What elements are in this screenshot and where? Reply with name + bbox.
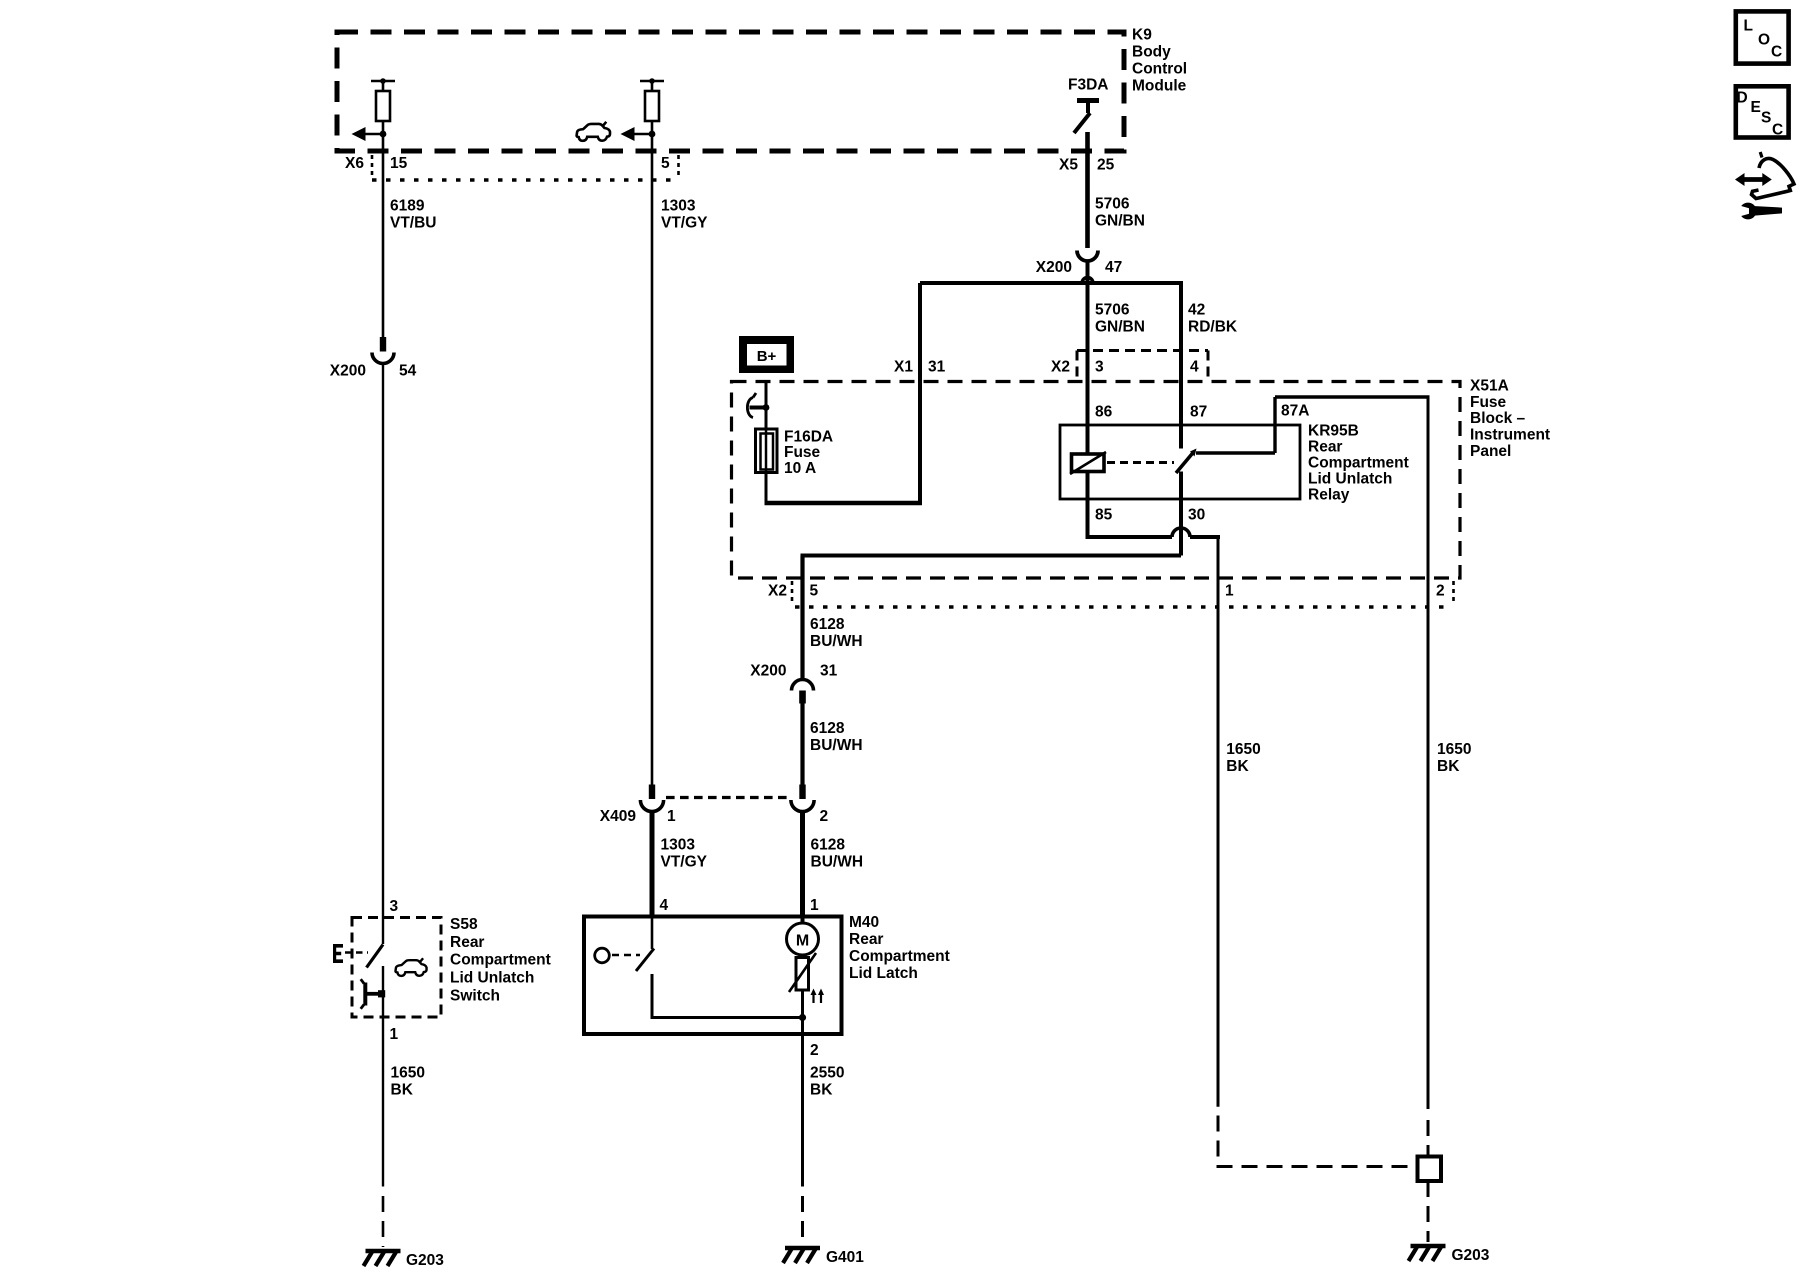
connector strip bottom (dotted) bbox=[795, 605, 1453, 609]
svg-text:Panel: Panel bbox=[1470, 443, 1511, 460]
svg-text:5706: 5706 bbox=[1095, 302, 1130, 319]
svg-text:VT/BU: VT/BU bbox=[390, 215, 437, 232]
switch S58 Rear Compartment Lid Unlatch Switch (dashed box) bbox=[352, 918, 441, 1018]
latch switch pivot bbox=[595, 948, 610, 963]
connector X200 pin 31 (in-line) bbox=[792, 680, 814, 691]
wire relay arm to 87A terminal bbox=[1196, 451, 1275, 454]
separator right (bottom row) bbox=[1452, 581, 1455, 603]
wire from fuse to riser bbox=[765, 473, 768, 504]
svg-text:G203: G203 bbox=[406, 1252, 444, 1269]
wire 87A up and over to fuse block pin 2 drop bbox=[1273, 397, 1276, 453]
ground G401 bbox=[785, 1246, 820, 1250]
wire - BCM internal down to X6 pin 15 bbox=[382, 134, 385, 152]
wire 1303 VT/GY to M40 pin 4 bbox=[650, 812, 655, 917]
svg-text:4: 4 bbox=[660, 897, 669, 914]
svg-text:X409: X409 bbox=[600, 808, 637, 825]
svg-text:Compartment: Compartment bbox=[450, 952, 551, 969]
node - junction at driver output bbox=[380, 131, 387, 138]
wire from B+ to fuse bbox=[765, 382, 768, 430]
svg-text:F3DA: F3DA bbox=[1068, 77, 1108, 94]
svg-text:31: 31 bbox=[928, 359, 946, 376]
svg-text:47: 47 bbox=[1105, 259, 1122, 276]
svg-text:31: 31 bbox=[820, 663, 838, 680]
svg-text:BU/WH: BU/WH bbox=[810, 633, 863, 650]
svg-text:1650: 1650 bbox=[1226, 741, 1260, 758]
svg-text:5706: 5706 bbox=[1095, 196, 1130, 213]
latch switch link (dashed) bbox=[612, 954, 640, 957]
svg-text:2: 2 bbox=[820, 808, 829, 825]
svg-text:F16DA: F16DA bbox=[784, 429, 833, 446]
link E to switch (dashed) bbox=[345, 951, 368, 954]
icon car with double arrow (component view) bbox=[1735, 173, 1745, 186]
svg-text:VT/GY: VT/GY bbox=[661, 854, 708, 871]
svg-text:4: 4 bbox=[1190, 359, 1199, 376]
relay coil-contact link (dashed) bbox=[1107, 461, 1174, 464]
wire 6189 VT/BU from X200-54 down to S58 pin 3 bbox=[382, 364, 384, 945]
latch M40 Rear Compartment Lid Latch (box) bbox=[584, 917, 842, 1035]
wire 1650 BK from fuse block pin 2 down bbox=[1427, 397, 1430, 1109]
svg-text:Compartment: Compartment bbox=[849, 948, 950, 965]
wire from relay 30 down and left to X2-5 bbox=[1179, 499, 1183, 556]
svg-text:Lid Latch: Lid Latch bbox=[849, 965, 918, 982]
connector X409 link (dashed) bbox=[666, 796, 789, 799]
svg-text:15: 15 bbox=[390, 155, 408, 172]
car icon (rear compartment) bbox=[577, 122, 610, 141]
svg-text:BK: BK bbox=[810, 1082, 833, 1099]
connector X2 (fuse block top, pins 3 and 4) dashed box bbox=[1077, 349, 1208, 352]
latch switch lower contact bbox=[651, 974, 654, 1018]
wire 5706 from X200-47 to branch bbox=[1086, 261, 1090, 284]
wire 5706 GN/BN down through X2-3 to relay 86 bbox=[1086, 283, 1090, 425]
svg-text:L: L bbox=[1744, 18, 1753, 35]
connector X200 pin 47 (in-line) bbox=[1077, 251, 1098, 262]
svg-text:Instrument: Instrument bbox=[1470, 427, 1550, 444]
splice pack / connector at ground distribution bbox=[1418, 1157, 1442, 1182]
svg-text:Relay: Relay bbox=[1308, 487, 1350, 504]
svg-text:1: 1 bbox=[810, 897, 819, 914]
switch blade S58 (open) bbox=[367, 945, 384, 968]
svg-text:Module: Module bbox=[1132, 78, 1187, 95]
svg-text:54: 54 bbox=[399, 363, 417, 380]
svg-text:25: 25 bbox=[1097, 157, 1115, 174]
svg-text:X6: X6 bbox=[345, 155, 364, 172]
svg-text:Lid Unlatch: Lid Unlatch bbox=[1308, 471, 1392, 488]
svg-text:B+: B+ bbox=[757, 348, 777, 365]
wire 42 RD/BK down through X2-4 to relay 87 bbox=[1179, 283, 1183, 425]
svg-text:30: 30 bbox=[1188, 507, 1205, 524]
svg-text:Lid Unlatch: Lid Unlatch bbox=[450, 970, 534, 987]
svg-text:2550: 2550 bbox=[810, 1065, 844, 1082]
svg-text:VT/GY: VT/GY bbox=[661, 215, 708, 232]
svg-text:87: 87 bbox=[1190, 404, 1207, 421]
svg-text:1303: 1303 bbox=[661, 837, 696, 854]
fuse F16DA 10 A bbox=[756, 429, 778, 473]
svg-text:1650: 1650 bbox=[391, 1065, 425, 1082]
ground G203 (right) bbox=[1411, 1244, 1446, 1248]
svg-text:1650: 1650 bbox=[1437, 741, 1471, 758]
svg-text:6128: 6128 bbox=[811, 837, 846, 854]
BCM output driver (resistor) for switch signal, left bbox=[371, 80, 395, 83]
wire 1650 BK from fuse block pin 1 down bbox=[1217, 537, 1220, 1107]
svg-text:6189: 6189 bbox=[390, 198, 425, 215]
svg-text:O: O bbox=[1758, 31, 1770, 48]
svg-text:2: 2 bbox=[810, 1042, 819, 1059]
svg-text:3: 3 bbox=[1095, 359, 1104, 376]
wire - driver to arrow junction bbox=[382, 121, 385, 135]
relay KR95B Rear Compartment Lid Unlatch Relay (box) bbox=[1060, 425, 1300, 499]
relay movable contact arm (to 87A) bbox=[1176, 452, 1194, 474]
svg-text:Body: Body bbox=[1132, 44, 1171, 61]
svg-text:M40: M40 bbox=[849, 914, 879, 931]
module K9 Body Control Module (dashed box) bbox=[337, 32, 1124, 151]
separator X6 bbox=[371, 155, 374, 176]
svg-text:BU/WH: BU/WH bbox=[810, 737, 863, 754]
svg-text:G203: G203 bbox=[1452, 1247, 1490, 1264]
relay coil bbox=[1086, 425, 1090, 454]
power feed B+ bbox=[739, 336, 794, 373]
separator X2 bottom bbox=[791, 581, 794, 603]
svg-text:BK: BK bbox=[1437, 758, 1460, 775]
icon DESC (description) button bbox=[1736, 86, 1789, 137]
svg-text:86: 86 bbox=[1095, 404, 1113, 421]
svg-text:E: E bbox=[1751, 99, 1761, 116]
svg-text:Rear: Rear bbox=[849, 931, 883, 948]
svg-text:X1: X1 bbox=[894, 359, 913, 376]
svg-text:GN/BN: GN/BN bbox=[1095, 319, 1145, 336]
svg-text:C: C bbox=[1772, 121, 1783, 138]
car icon (rear compartment) in S58 bbox=[395, 958, 426, 976]
relay contact 87 stub bbox=[1179, 425, 1183, 449]
svg-text:Fuse: Fuse bbox=[784, 444, 821, 461]
icon LOC (location) button bbox=[1736, 11, 1789, 63]
wire 2550 BK to G401 bbox=[801, 1034, 804, 1187]
svg-text:BU/WH: BU/WH bbox=[811, 854, 864, 871]
wire latch switch to motor return bbox=[651, 1016, 803, 1019]
svg-text:M: M bbox=[796, 933, 809, 950]
motor M (latch release) bbox=[801, 917, 805, 925]
svg-text:10 A: 10 A bbox=[784, 460, 816, 477]
svg-text:K9: K9 bbox=[1132, 27, 1152, 44]
svg-text:S58: S58 bbox=[450, 916, 478, 933]
svg-text:5: 5 bbox=[810, 583, 819, 600]
svg-text:X2: X2 bbox=[1051, 359, 1070, 376]
wire hop over 30 wire bbox=[1172, 528, 1190, 537]
connector X6 strip (dotted) bbox=[372, 178, 679, 182]
switch S58 lower wire bbox=[382, 966, 384, 1017]
signal arrow left (to other circuit) bbox=[365, 133, 382, 136]
svg-text:RD/BK: RD/BK bbox=[1188, 319, 1238, 336]
wire 1650 BK to G203 left bbox=[382, 1017, 384, 1187]
svg-text:Control: Control bbox=[1132, 61, 1187, 78]
node E (illumination feed) bbox=[333, 944, 343, 963]
wire 6128 BU/WH from X200-31 to X409-2 bbox=[800, 704, 804, 785]
svg-text:1: 1 bbox=[390, 1026, 399, 1043]
latch switch blade (open) bbox=[636, 949, 654, 972]
node - junction at driver output bbox=[649, 131, 656, 138]
separator X6 right bbox=[677, 155, 680, 176]
svg-text:85: 85 bbox=[1095, 507, 1113, 524]
signal arrow left (trunk request) bbox=[634, 133, 651, 136]
connector X409 pin 2 (in-line) bbox=[799, 785, 805, 800]
svg-text:Switch: Switch bbox=[450, 987, 500, 1004]
svg-text:G401: G401 bbox=[826, 1249, 864, 1266]
svg-text:D: D bbox=[1737, 89, 1748, 106]
svg-text:6128: 6128 bbox=[810, 616, 845, 633]
svg-text:X51A: X51A bbox=[1470, 378, 1509, 395]
svg-text:Fuse: Fuse bbox=[1470, 394, 1507, 411]
wire splice pack to G203 right bbox=[1427, 1181, 1430, 1242]
svg-text:1: 1 bbox=[667, 808, 676, 825]
svg-text:87A: 87A bbox=[1281, 403, 1309, 420]
node - junction motor return bbox=[799, 1014, 806, 1021]
double arrows (self-resetting) bbox=[812, 991, 814, 1003]
svg-text:X200: X200 bbox=[1036, 259, 1072, 276]
wire - riser from fuse F16DA to branch (X1-31) bbox=[918, 283, 922, 503]
latch switch wire from pin 4 bbox=[651, 917, 654, 950]
wire 6128 BU/WH to M40 pin 1 bbox=[800, 812, 805, 917]
svg-text:X200: X200 bbox=[750, 663, 786, 680]
svg-text:3: 3 bbox=[390, 898, 399, 915]
switch actuator (pushbutton) bbox=[363, 983, 367, 1006]
svg-text:Compartment: Compartment bbox=[1308, 455, 1409, 472]
wire 5706 inside BCM from F3DA to X5 pin 25 bbox=[1085, 132, 1090, 248]
svg-text:GN/BN: GN/BN bbox=[1095, 213, 1145, 230]
wire 6189 VT/BU from X6-15 down to X200-54 bbox=[382, 152, 385, 337]
svg-text:Rear: Rear bbox=[1308, 439, 1342, 456]
svg-text:42: 42 bbox=[1188, 302, 1205, 319]
svg-text:1: 1 bbox=[1225, 583, 1234, 600]
BCM output driver (resistor) for trunk release, right bbox=[640, 80, 664, 83]
wire from relay 85 down and right to pin 1 drop bbox=[1086, 499, 1090, 537]
svg-text:X200: X200 bbox=[330, 363, 366, 380]
wire 1650 BK corner to splice pack (dashed) bbox=[1217, 1165, 1417, 1168]
svg-text:BK: BK bbox=[1226, 758, 1249, 775]
svg-text:S: S bbox=[1761, 110, 1771, 127]
wire thermal to pin 2 bbox=[801, 990, 804, 1034]
battery feed symbol inside fuse block bbox=[747, 398, 753, 418]
svg-text:6128: 6128 bbox=[810, 720, 845, 737]
svg-text:C: C bbox=[1771, 44, 1782, 61]
fuse block X51A - Instrument Panel (dashed box) bbox=[732, 382, 1461, 579]
ground G203 (left) bbox=[366, 1249, 401, 1253]
wire - BCM internal down to X6 pin 5 bbox=[651, 134, 654, 152]
wire - driver to arrow junction bbox=[651, 121, 654, 135]
svg-text:X5: X5 bbox=[1059, 157, 1078, 174]
connector X409 pin 1 (in-line) bbox=[649, 785, 655, 800]
svg-text:BK: BK bbox=[391, 1082, 414, 1099]
thermal protector (PTC) below motor bbox=[801, 955, 804, 958]
svg-text:1303: 1303 bbox=[661, 198, 696, 215]
svg-text:Rear: Rear bbox=[450, 934, 484, 951]
svg-text:Block –: Block – bbox=[1470, 410, 1526, 427]
svg-text:2: 2 bbox=[1436, 583, 1445, 600]
wire 1303 VT/GY from X6-5 down to X409-1 bbox=[651, 152, 654, 785]
relay contact 30 stub bbox=[1179, 472, 1183, 500]
splice bump at X200-47 branch bbox=[1082, 278, 1093, 284]
wire - branch horizontal from X1-31 to 42 RD/BK drop bbox=[920, 281, 1183, 285]
svg-text:KR95B: KR95B bbox=[1308, 423, 1359, 440]
svg-text:5: 5 bbox=[661, 155, 670, 172]
svg-text:X2: X2 bbox=[768, 583, 787, 600]
connector X200 pin 54 (in-line) bbox=[380, 337, 386, 352]
icon wrench (service) bbox=[1753, 206, 1782, 216]
